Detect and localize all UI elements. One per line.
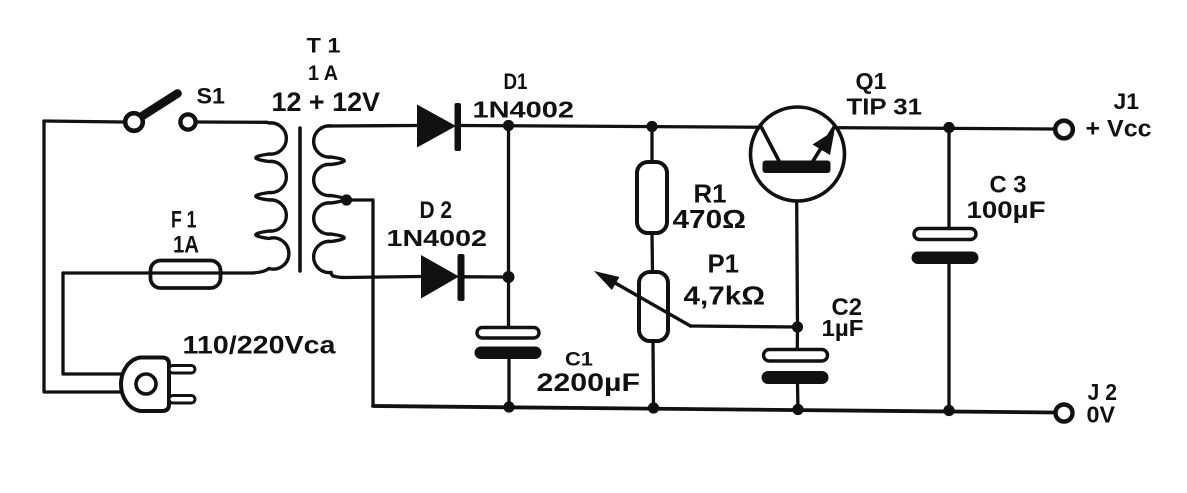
svg-text:S1: S1 (197, 84, 226, 109)
wire top-left from corner to S1 (44, 121, 123, 122)
terminal J1 (1055, 121, 1073, 139)
svg-text:12 + 12V: 12 + 12V (272, 87, 381, 117)
wire bottom rail 0V (373, 406, 1054, 413)
wire R1-P1 link (650, 233, 654, 272)
wire top rail from D1 cathode to J1 (462, 126, 1054, 130)
svg-text:P1: P1 (708, 249, 740, 279)
svg-text:1A: 1A (173, 232, 199, 259)
node C3 ground junction (943, 405, 954, 416)
wire C3 top lead (947, 128, 950, 231)
svg-text:C 3: C 3 (990, 172, 1027, 199)
svg-text:Q1: Q1 (856, 68, 887, 94)
switch S1 (125, 94, 195, 131)
svg-text:D1: D1 (504, 69, 528, 94)
wire D2 cathode to junction (464, 275, 509, 279)
wire P1 bottom lead to rail (651, 341, 655, 408)
wire secondary top to D1 anode (331, 124, 417, 128)
svg-text:1N4002: 1N4002 (473, 97, 575, 123)
svg-text:0V: 0V (1087, 402, 1116, 428)
capacitor C3 (912, 229, 979, 265)
transformer T1 primary winding (256, 122, 289, 269)
svg-text:F 1: F 1 (171, 207, 197, 234)
terminal J2 (1056, 405, 1073, 422)
svg-text:1N4002: 1N4002 (387, 225, 488, 251)
wire inner vertical from fuse to plug upper lead (63, 273, 122, 374)
node D2 cathode junction (503, 271, 515, 283)
svg-text:C1: C1 (565, 350, 593, 371)
transformer T1 secondary winding (314, 126, 345, 276)
transistor Q1 (751, 107, 845, 201)
wire rectified node vertical D1-D2-C1 (507, 126, 510, 331)
svg-text:J1: J1 (1114, 89, 1140, 114)
capacitor C2 (762, 350, 829, 385)
wire C2 bottom to rail (796, 384, 800, 410)
wire C1 bottom to rail (507, 359, 510, 407)
svg-text:100µF: 100µF (967, 197, 1046, 224)
node C2 ground junction (792, 404, 803, 415)
svg-text:4,7kΩ: 4,7kΩ (684, 281, 766, 311)
fuse F1 (151, 261, 221, 289)
node center tap (341, 194, 352, 205)
wire fuse line through to primary bottom (63, 269, 269, 274)
svg-text:D 2: D 2 (420, 197, 453, 224)
capacitor C1 (475, 328, 542, 360)
node base-wiper-C2 junction (792, 321, 803, 332)
wire center tap to bottom rail left leg (346, 200, 373, 406)
svg-text:110/220Vca: 110/220Vca (183, 332, 337, 360)
wire S1 to transformer primary top (198, 120, 267, 124)
AC plug (121, 358, 195, 412)
svg-text:1µF: 1µF (822, 315, 864, 341)
svg-text:2200µF: 2200µF (537, 369, 641, 397)
diode D1 (417, 103, 461, 151)
resistor R1 (637, 162, 667, 233)
svg-text:T 1: T 1 (307, 35, 341, 58)
svg-text:TIP 31: TIP 31 (847, 94, 923, 120)
potentiometer P1 wiper arrow (594, 271, 691, 326)
wire Q1 base stem down to node (797, 173, 798, 327)
diode D2 (421, 254, 465, 301)
wire P1 wiper to base node (691, 326, 799, 327)
wire left outer vertical down to plug lower lead (44, 121, 121, 392)
svg-text:470Ω: 470Ω (673, 204, 747, 234)
svg-text:1 A: 1 A (308, 62, 338, 85)
wire R1 top lead (650, 126, 653, 162)
node D1 cathode junction (503, 120, 514, 131)
potentiometer P1 (639, 272, 668, 341)
svg-text:+ Vcc: + Vcc (1086, 116, 1152, 143)
wire secondary bottom to D2 anode (333, 276, 420, 278)
node P1 ground junction (648, 402, 659, 413)
node R1 top junction (646, 121, 657, 132)
wire node to C2 top (796, 327, 800, 350)
transformer T1 core (298, 128, 302, 271)
node C3 top junction (943, 122, 954, 133)
wire C3 bottom lead to rail (947, 264, 950, 412)
node C1 ground junction (503, 401, 514, 412)
